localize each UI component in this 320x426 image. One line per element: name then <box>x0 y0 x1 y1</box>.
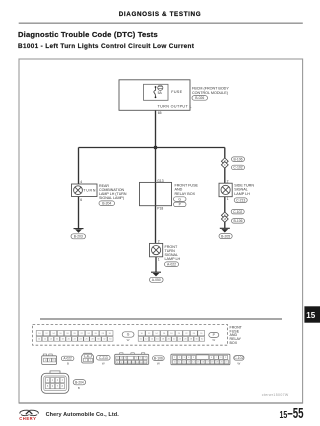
svg-text:C-213: C-213 <box>236 198 245 202</box>
svg-text:C-102: C-102 <box>233 210 242 214</box>
svg-text:1: 1 <box>158 257 160 261</box>
svg-text:W: W <box>237 361 240 365</box>
svg-text:15–55: 15–55 <box>280 406 304 422</box>
svg-text:B1001 - Left Turn Lights Contr: B1001 - Left Turn Lights Control Circuit… <box>18 43 195 50</box>
svg-text:FBCM (FRONT BODY: FBCM (FRONT BODY <box>192 86 229 90</box>
svg-text:Diagnostic Trouble Code (DTC): Diagnostic Trouble Code (DTC) Tests <box>18 30 158 39</box>
svg-text:B-204: B-204 <box>75 380 84 384</box>
svg-text:W: W <box>127 338 130 342</box>
svg-text:W: W <box>212 338 215 342</box>
svg-text:LAMP LH: LAMP LH <box>234 192 250 196</box>
svg-text:C-213: C-213 <box>99 356 108 360</box>
svg-text:LAMP LH: LAMP LH <box>165 257 181 261</box>
svg-text:65: 65 <box>158 111 162 115</box>
svg-text:B: B <box>67 361 69 365</box>
svg-text:B-106: B-106 <box>154 356 163 360</box>
svg-text:B-203: B-203 <box>74 235 83 239</box>
svg-text:TURN OUTPUT L: TURN OUTPUT L <box>158 105 192 109</box>
svg-text:C-102: C-102 <box>234 356 243 360</box>
svg-text:SIGNAL LAMP): SIGNAL LAMP) <box>99 196 124 200</box>
svg-text:B-204: B-204 <box>102 201 111 205</box>
svg-text:BOX: BOX <box>230 341 238 345</box>
svg-text:CHERY: CHERY <box>19 416 36 421</box>
svg-text:6: 6 <box>80 198 82 202</box>
svg-text:A-050: A-050 <box>152 278 161 282</box>
svg-text:P18: P18 <box>157 207 163 211</box>
svg-text:1: 1 <box>227 197 229 201</box>
svg-text:Chery Automobile Co., Ltd.: Chery Automobile Co., Ltd. <box>46 412 120 418</box>
svg-text:G: G <box>127 333 130 337</box>
svg-text:A-022: A-022 <box>167 262 176 266</box>
svg-text:TURN: TURN <box>83 189 96 193</box>
svg-text:B: B <box>78 386 80 390</box>
svg-text:CONTROL MODULE): CONTROL MODULE) <box>192 91 228 95</box>
svg-text:W: W <box>157 362 160 366</box>
svg-text:B-106: B-106 <box>233 219 242 223</box>
svg-text:4: 4 <box>80 180 82 184</box>
svg-text:DIAGNOSIS & TESTING: DIAGNOSIS & TESTING <box>119 11 201 18</box>
svg-text:15: 15 <box>306 311 315 320</box>
svg-text:B-205: B-205 <box>221 234 230 238</box>
svg-text:cterwr15007W: cterwr15007W <box>262 393 289 397</box>
svg-text:A-022: A-022 <box>63 357 72 361</box>
svg-text:5A: 5A <box>158 91 163 95</box>
svg-text:C-102: C-102 <box>233 166 242 170</box>
svg-text:B-106: B-106 <box>233 157 242 161</box>
svg-text:RELAY BOX: RELAY BOX <box>175 192 196 196</box>
svg-text:W: W <box>102 361 105 365</box>
svg-text:FUSE: FUSE <box>171 90 182 94</box>
svg-text:G: G <box>178 197 181 201</box>
svg-text:B-026: B-026 <box>195 96 204 100</box>
